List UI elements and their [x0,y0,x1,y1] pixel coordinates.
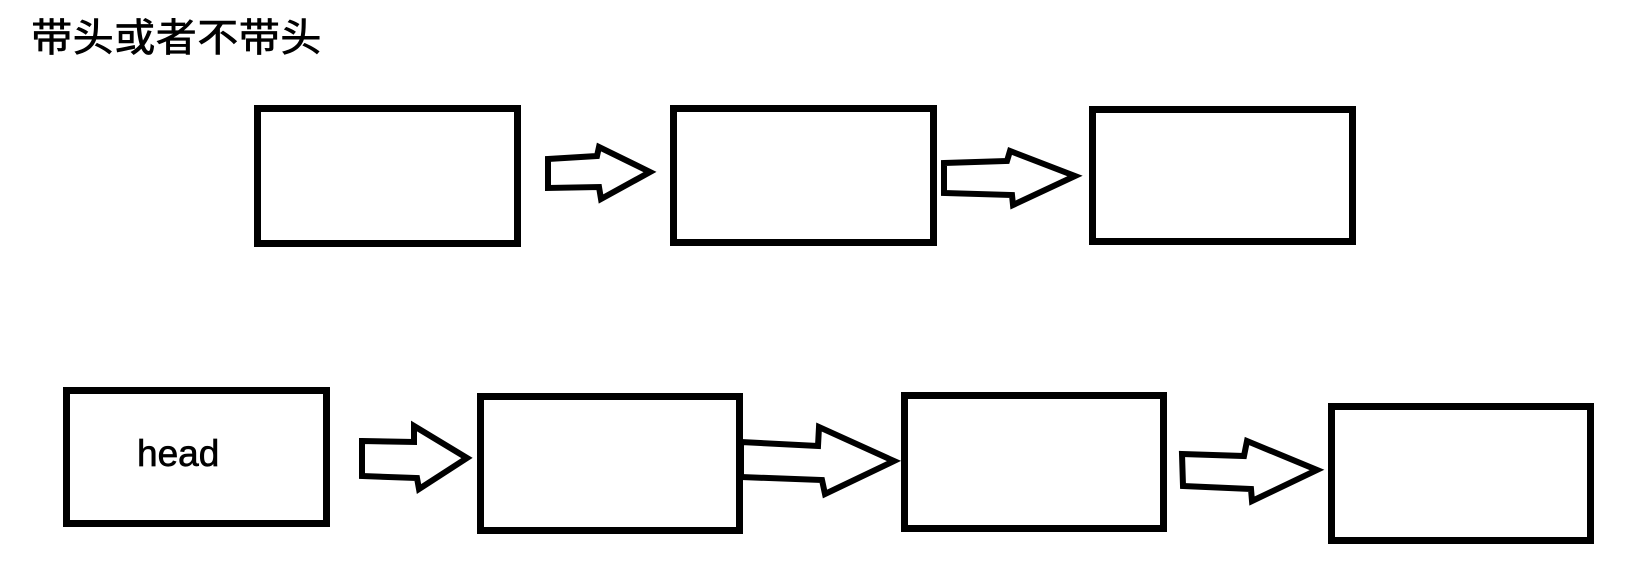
node box 3 (row 1) [1089,106,1356,245]
head box (row 2) [63,387,330,527]
node box C (row 2) [901,392,1167,532]
node box D (row 2) [1328,403,1594,544]
node box B (row 2) [477,393,743,534]
head label [137,433,219,475]
node box 1 (row 1) [254,105,521,247]
node box 2 (row 1) [670,105,937,246]
